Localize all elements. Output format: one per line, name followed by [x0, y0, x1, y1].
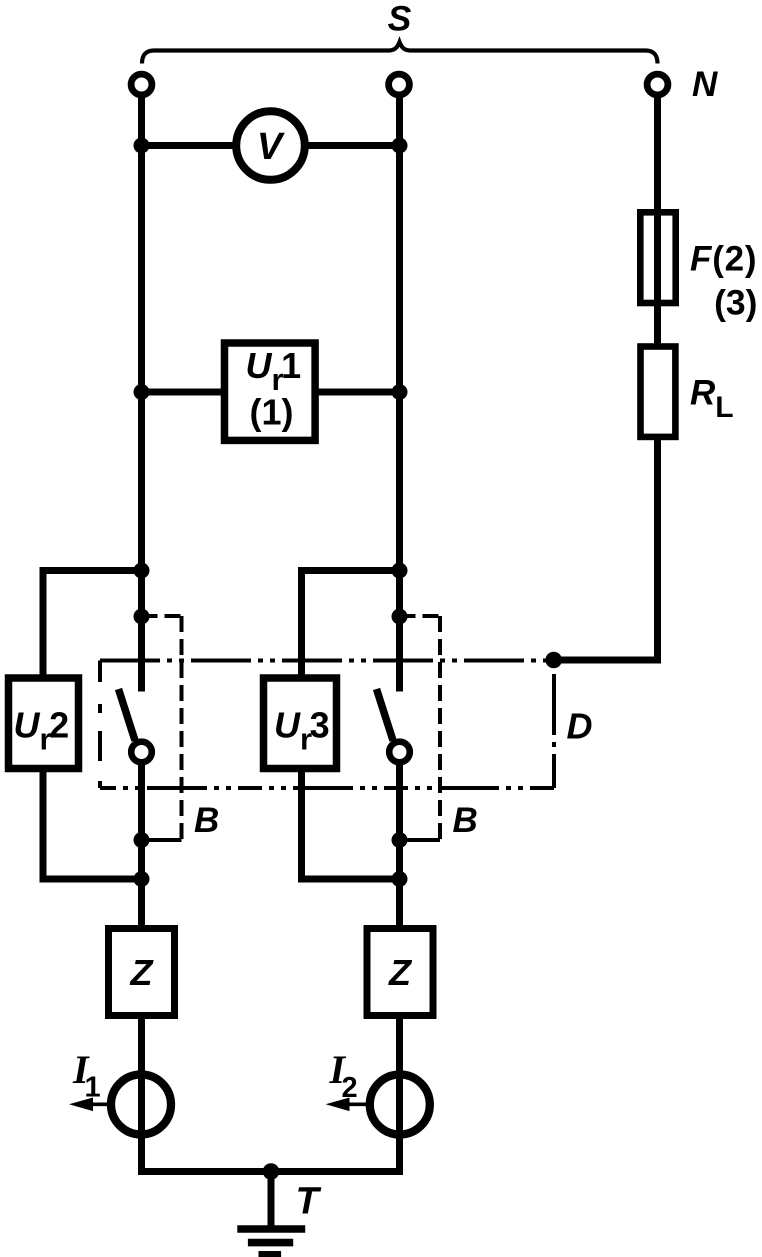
node dot Ur1 row right — [392, 384, 408, 400]
wire ground stem — [268, 1172, 275, 1230]
node dot return rail left — [134, 871, 150, 887]
node dot D — [545, 652, 562, 669]
ground bar 2 — [248, 1239, 293, 1247]
node dot Ur1 row left — [134, 384, 150, 400]
svg-text:(3): (3) — [714, 283, 757, 323]
node dot B bottom left — [134, 832, 150, 848]
svg-text:V: V — [257, 126, 285, 168]
chain box D left edge — [98, 661, 102, 789]
box Z left — [109, 929, 175, 1016]
chain box D top edge — [100, 659, 554, 663]
wire left main line lower — [142, 763, 400, 1172]
wire middle main line upper — [396, 95, 403, 692]
node dot top rail left — [134, 563, 150, 579]
wire voltmeter row — [142, 142, 400, 149]
svg-text:(1): (1) — [250, 392, 294, 433]
node dot V row right — [392, 138, 408, 154]
svg-text:F(2): F(2) — [690, 240, 757, 279]
switch blade left — [119, 689, 136, 741]
voltmeter V — [236, 111, 305, 180]
current transformer I2 — [370, 1075, 430, 1135]
dashed box B left top edge — [142, 614, 182, 618]
resistor RL — [641, 347, 676, 437]
terminal middle — [389, 74, 410, 95]
svg-text:T: T — [296, 1181, 322, 1223]
wire left main line upper — [138, 95, 145, 692]
fuse F — [640, 212, 675, 303]
current transformer I1 — [111, 1075, 171, 1135]
dashed box B middle right edge — [438, 616, 442, 840]
dashed box B middle top edge — [400, 614, 441, 618]
node dot return rail middle — [392, 871, 408, 887]
svg-text:S: S — [388, 0, 412, 39]
dashed box B left bottom edge — [148, 838, 182, 842]
svg-text:D: D — [567, 706, 593, 747]
node dot V row left — [134, 138, 150, 154]
svg-text:Z: Z — [388, 952, 413, 993]
svg-text:N: N — [692, 65, 718, 104]
node dot top rail middle — [392, 563, 408, 579]
svg-text:B: B — [194, 801, 219, 840]
box Ur3 — [264, 678, 337, 769]
switch contact circle middle — [389, 742, 410, 763]
brace S — [142, 42, 658, 64]
node dot B bottom middle — [392, 832, 408, 848]
wire Ur3 loop — [302, 571, 400, 880]
box Ur2 — [9, 678, 79, 769]
ground bar 3 — [259, 1251, 282, 1257]
switch contact circle left — [131, 742, 152, 763]
node dot B top middle — [392, 609, 408, 625]
chain box D bottom edge — [100, 786, 554, 790]
svg-text:2: 2 — [342, 1072, 358, 1104]
box Ur1 — [225, 343, 316, 440]
node dot B top left — [134, 609, 150, 625]
dashed box B middle bottom edge — [406, 838, 440, 842]
box Z right — [367, 929, 433, 1016]
wire Ur1 row — [142, 389, 400, 396]
chain box D right edge — [552, 674, 556, 788]
node dot T — [263, 1163, 280, 1180]
svg-text:Z: Z — [130, 952, 155, 993]
terminal left — [131, 74, 152, 95]
terminal N — [647, 74, 668, 95]
wire Ur2 loop — [43, 571, 142, 880]
arrow I2 — [336, 1102, 367, 1106]
dashed box B left right edge — [180, 616, 184, 840]
switch blade middle — [377, 689, 394, 741]
wire right main line with corner to node — [554, 95, 658, 660]
ground bar 1 — [237, 1225, 305, 1233]
svg-text:1: 1 — [85, 1072, 101, 1104]
arrow I1 — [80, 1102, 108, 1106]
svg-text:B: B — [453, 801, 478, 840]
